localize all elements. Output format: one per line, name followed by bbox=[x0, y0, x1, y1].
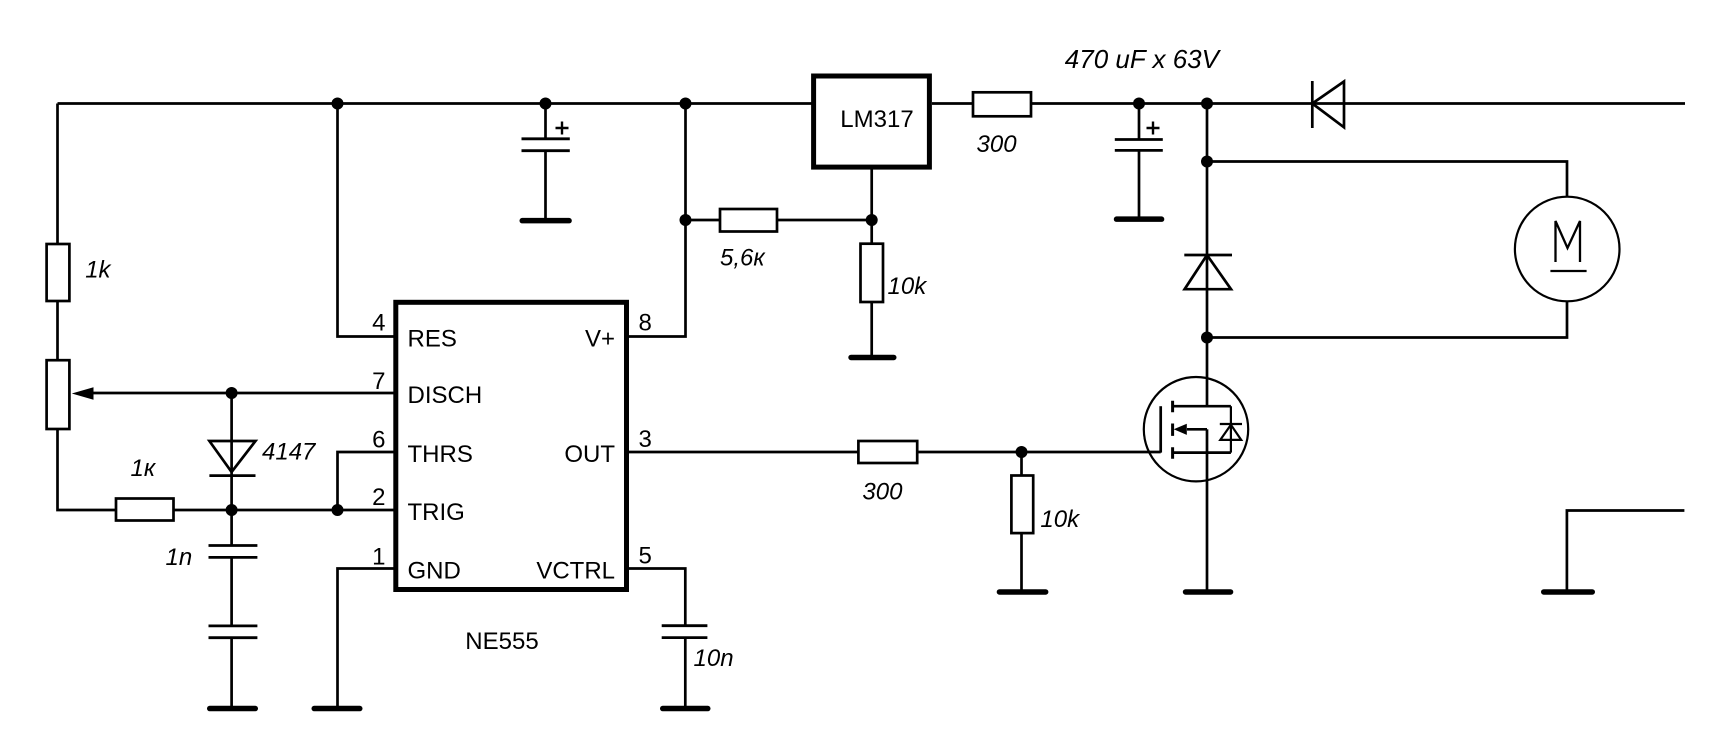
svg-text:8: 8 bbox=[639, 309, 652, 336]
svg-text:7: 7 bbox=[372, 368, 385, 395]
svg-text:4: 4 bbox=[372, 309, 385, 336]
svg-text:NE555: NE555 bbox=[465, 628, 538, 655]
svg-text:10k: 10k bbox=[888, 273, 929, 300]
svg-text:GND: GND bbox=[408, 558, 461, 585]
wire R3 to LM317 bottom node bbox=[777, 219, 872, 222]
svg-text:10n: 10n bbox=[694, 645, 734, 672]
capacitor C1 1n bottom plate bbox=[209, 556, 258, 559]
node LM317 adj bbox=[866, 214, 878, 226]
resistor R7 10k body bbox=[1011, 476, 1033, 534]
pin 7 number bbox=[372, 368, 385, 395]
capacitor C2 bottom plate bbox=[209, 636, 258, 639]
node motor top bbox=[1201, 156, 1213, 168]
wire rail to C4 bbox=[1138, 104, 1141, 140]
resistor R6 300 body bbox=[858, 441, 917, 463]
value 300 top bbox=[977, 131, 1018, 158]
pin 2 number bbox=[372, 484, 385, 511]
wire top rail R300 to diode bbox=[1031, 102, 1685, 105]
wire top rail left segment bbox=[58, 102, 812, 105]
node OUT R7 bbox=[1016, 446, 1028, 458]
pin 8 number bbox=[639, 309, 652, 336]
svg-text:1n: 1n bbox=[166, 544, 193, 571]
wire DISCH pin 7 to pot wiper bbox=[92, 392, 394, 395]
wire motor top feed bbox=[1207, 162, 1567, 198]
pin 4 number bbox=[372, 309, 385, 336]
transistor Q1 drain bar bbox=[1173, 405, 1231, 408]
resistor R2 1k body bbox=[116, 499, 174, 521]
motor M letter bbox=[1550, 221, 1586, 271]
regulator U2 LM317 box bbox=[814, 76, 930, 167]
resistor R4 10k body bbox=[861, 244, 884, 302]
plus sign C3 bbox=[556, 122, 569, 135]
capacitor C5 10n plates bbox=[662, 626, 708, 638]
svg-text:470 uF x 63V: 470 uF x 63V bbox=[1065, 44, 1222, 74]
svg-text:4147: 4147 bbox=[262, 439, 317, 466]
ground under C5 bbox=[660, 706, 711, 712]
value 5,6k bbox=[720, 245, 766, 272]
capacitor C4 470uF plates bbox=[1115, 140, 1163, 151]
svg-text:TRIG: TRIG bbox=[408, 499, 465, 526]
ground under C3 bbox=[520, 218, 572, 224]
pin name RES bbox=[408, 326, 457, 353]
svg-text:DISCH: DISCH bbox=[408, 382, 483, 409]
pin name VCTRL bbox=[536, 558, 615, 585]
node rail-V+ bbox=[680, 98, 692, 110]
svg-text:VCTRL: VCTRL bbox=[536, 558, 615, 585]
value 1n bbox=[166, 544, 193, 571]
node rail-C4 bbox=[1133, 98, 1145, 110]
node TRIG THRS bbox=[332, 504, 344, 516]
wire C5 to ground bbox=[684, 638, 687, 706]
value 10k out bbox=[1040, 506, 1081, 533]
transistor Q1 body arrow bbox=[1187, 428, 1207, 431]
wire Q1 source to ground bbox=[1206, 453, 1209, 590]
node R3 left bbox=[680, 214, 692, 226]
ground under R4 bbox=[848, 355, 896, 361]
diode VD2 flyback bbox=[1184, 255, 1232, 289]
wire R7 to ground bbox=[1020, 533, 1023, 589]
wire THRS branch bbox=[338, 452, 394, 510]
svg-text:V+: V+ bbox=[585, 326, 615, 353]
svg-text:10k: 10k bbox=[1040, 506, 1081, 533]
ground under C4 bbox=[1114, 216, 1165, 222]
label NE555 bbox=[465, 628, 538, 655]
svg-text:1: 1 bbox=[372, 544, 385, 571]
pin name V+ bbox=[585, 326, 615, 353]
wire rail to C3 bbox=[544, 104, 547, 139]
svg-text:6: 6 bbox=[372, 427, 385, 454]
svg-text:1к: 1к bbox=[131, 455, 157, 482]
wire node to R3 bbox=[686, 219, 721, 222]
pin name DISCH bbox=[408, 382, 483, 409]
value 1k vertical resistor bbox=[85, 257, 112, 284]
wire top rail LM317 to R300 bbox=[932, 102, 973, 105]
wire C1 to C2 bbox=[230, 557, 233, 626]
label LM317 bbox=[840, 106, 913, 133]
svg-text:5: 5 bbox=[639, 543, 652, 570]
transistor Q1 body diode bbox=[1220, 406, 1242, 452]
value 300 out bbox=[862, 479, 903, 506]
value 470 uF x 63V bbox=[1065, 44, 1222, 74]
wire V+ pin 8 branch bbox=[629, 104, 686, 337]
node TRIG C1 bbox=[226, 504, 238, 516]
ground under Q1 bbox=[1183, 589, 1234, 595]
node DISCH diode bbox=[226, 387, 238, 399]
resistor R5 300 top body bbox=[973, 92, 1031, 116]
pin 1 number bbox=[372, 544, 385, 571]
wire motor bottom return bbox=[1207, 301, 1567, 338]
pin 5 number bbox=[639, 543, 652, 570]
svg-text:300: 300 bbox=[977, 131, 1018, 158]
ground under IC GND bbox=[312, 706, 363, 712]
svg-text:3: 3 bbox=[639, 426, 652, 453]
wire R4 to ground bbox=[870, 302, 873, 355]
plus sign C4 bbox=[1147, 122, 1160, 135]
svg-text:2: 2 bbox=[372, 484, 385, 511]
capacitor C2 top plate bbox=[209, 625, 258, 628]
pin name TRIG bbox=[408, 499, 465, 526]
svg-text:300: 300 bbox=[862, 479, 903, 506]
value 4147 bbox=[262, 439, 317, 466]
wire R1 to potentiometer bbox=[56, 301, 59, 360]
pin name OUT bbox=[564, 441, 615, 468]
node rail-drain column bbox=[1201, 98, 1213, 110]
svg-text:1k: 1k bbox=[85, 257, 112, 284]
wire bottom right terminal bbox=[1567, 511, 1685, 590]
wire left vertical from rail to R1 bbox=[56, 104, 59, 245]
wire node to R7 bbox=[1020, 452, 1023, 476]
wire C2 to ground bbox=[230, 638, 233, 706]
svg-text:THRS: THRS bbox=[408, 441, 473, 468]
node rail-RES bbox=[332, 98, 344, 110]
ground under C2 bbox=[207, 706, 258, 712]
svg-text:OUT: OUT bbox=[564, 441, 615, 468]
wire R6 to gate bbox=[917, 451, 1160, 454]
wire RES branch from rail bbox=[338, 104, 394, 337]
pot wiper arrow bbox=[72, 387, 94, 400]
wire GND pin to ground bbox=[338, 569, 394, 707]
wire C3 to ground bbox=[544, 151, 547, 218]
wire VCTRL pin 5 to C5 bbox=[629, 569, 685, 626]
node rail-C3 bbox=[540, 98, 552, 110]
wire right column vertical bbox=[1206, 104, 1209, 407]
value 10k top bbox=[888, 273, 929, 300]
wire TRIG net R2 to IC pin 2 bbox=[174, 509, 394, 512]
wire OUT pin 3 to R6 bbox=[629, 451, 858, 454]
capacitor C1 1n top plate bbox=[209, 544, 258, 547]
diode VD3 series top bbox=[1312, 81, 1344, 128]
svg-text:RES: RES bbox=[408, 326, 457, 353]
svg-text:LM317: LM317 bbox=[840, 106, 913, 133]
transistor Q1 channel segments bbox=[1171, 401, 1174, 459]
pin 3 number bbox=[639, 426, 652, 453]
pin name THRS bbox=[408, 441, 473, 468]
wire pot bottom down and right to R2 bbox=[58, 429, 117, 510]
wire C4 to ground bbox=[1138, 150, 1141, 216]
value 10n bbox=[694, 645, 734, 672]
transistor Q1 body connector bbox=[1206, 429, 1209, 452]
wire diode branch vertical bbox=[230, 393, 233, 546]
transistor Q1 circle bbox=[1144, 377, 1248, 481]
resistor R1 1k body bbox=[47, 244, 70, 301]
ground bottom right bbox=[1541, 589, 1595, 595]
svg-text:5,6к: 5,6к bbox=[720, 245, 766, 272]
resistor R3 5,6k body bbox=[720, 209, 777, 232]
ground under R7 bbox=[997, 589, 1049, 595]
pin 6 number bbox=[372, 427, 385, 454]
capacitor C3 470uF plates bbox=[522, 139, 570, 151]
op-amp U1 NE555 box bbox=[396, 302, 627, 589]
diode VD1 4147 bbox=[209, 441, 255, 476]
node motor bottom bbox=[1201, 332, 1213, 344]
transistor Q1 gate bar bbox=[1159, 406, 1162, 452]
transistor Q1 source bar bbox=[1173, 451, 1231, 454]
motor M1 circle bbox=[1515, 197, 1620, 302]
wire LM317 adj down bbox=[870, 170, 873, 244]
potentiometer RP1 body bbox=[47, 360, 70, 429]
pin name GND bbox=[408, 558, 461, 585]
value 1k horizontal resistor bbox=[131, 455, 157, 482]
